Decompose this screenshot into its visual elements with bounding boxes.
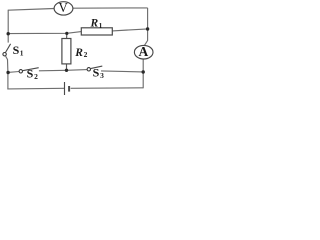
wire battery to bottom-right corner: [71, 87, 144, 90]
svg-text:V: V: [59, 0, 69, 15]
node junction right R1: [146, 27, 149, 30]
resistor R2: [62, 39, 71, 64]
node junction left-bottom branch: [6, 71, 9, 74]
battery: [65, 82, 70, 95]
wire S3 to right vertical: [101, 71, 143, 72]
wire S2 to R2 junction: [39, 70, 87, 71]
wire middle horizontal right: [112, 29, 147, 31]
voltmeter V: [54, 0, 73, 15]
svg-text:A: A: [139, 44, 149, 59]
node junction left-middle: [7, 32, 10, 35]
wire S2-S3 branch left: [8, 71, 19, 74]
wire left vertical upper: [7, 10, 9, 43]
wire R2 top stub: [66, 33, 68, 38]
wire bottom left to battery: [7, 87, 64, 90]
switch S1: [3, 44, 11, 56]
wire top-right: [73, 7, 148, 9]
node junction R2 bottom: [65, 69, 68, 72]
wire right vertical lower: [142, 59, 144, 88]
ammeter A: [134, 44, 153, 59]
wire left vertical lower: [6, 56, 8, 89]
switch S2: [19, 68, 39, 73]
resistor R1: [81, 28, 112, 35]
node junction R2 top: [65, 32, 68, 35]
wire right vertical upper: [144, 8, 147, 46]
switch S3: [87, 66, 102, 71]
wire middle horizontal left: [8, 32, 81, 34]
wire top-left: [8, 9, 54, 11]
wire R2 bottom stub: [66, 64, 68, 71]
node junction right S3: [142, 70, 145, 73]
